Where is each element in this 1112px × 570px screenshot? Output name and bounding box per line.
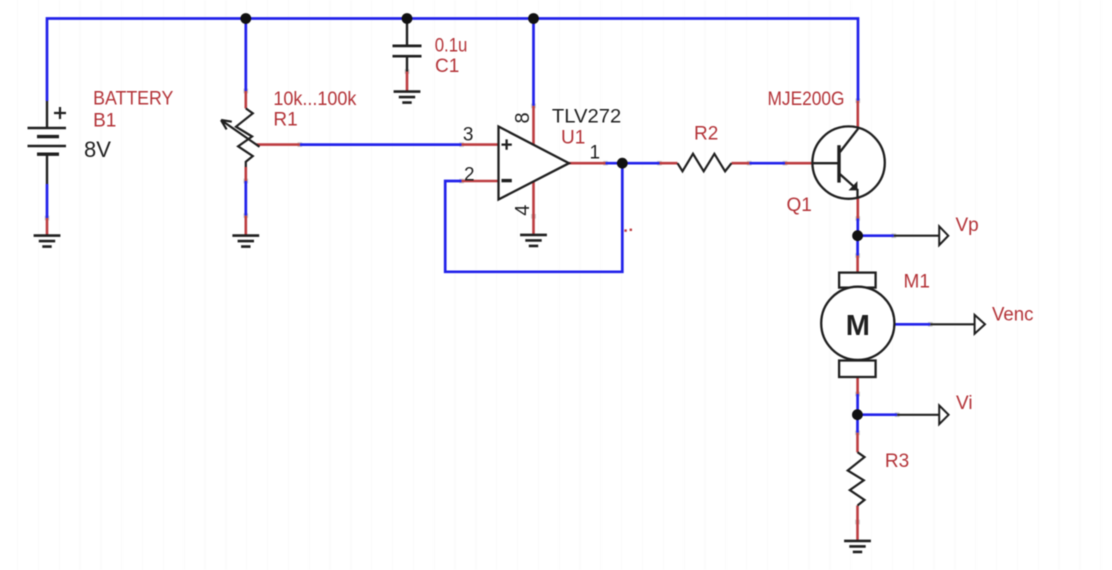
- svg-text:10k...100k: 10k...100k: [273, 89, 356, 110]
- svg-text:B1: B1: [93, 111, 116, 132]
- svg-text:Venc: Venc: [992, 304, 1034, 325]
- svg-text:R1: R1: [273, 109, 297, 130]
- svg-text:3: 3: [463, 125, 474, 146]
- svg-text:8: 8: [512, 112, 534, 123]
- svg-text:MJE200G: MJE200G: [768, 89, 845, 110]
- svg-text:0.1u: 0.1u: [435, 36, 468, 57]
- svg-text:M: M: [846, 310, 870, 342]
- svg-text:C1: C1: [435, 56, 459, 77]
- svg-text:Vi: Vi: [956, 393, 973, 414]
- svg-text:8V: 8V: [84, 137, 111, 162]
- svg-text:2: 2: [464, 164, 475, 185]
- svg-text:TLV272: TLV272: [552, 107, 621, 128]
- svg-text:BATTERY: BATTERY: [93, 89, 174, 110]
- svg-text:1: 1: [590, 143, 601, 164]
- svg-text:M1: M1: [904, 271, 930, 292]
- svg-text:Vp: Vp: [956, 215, 979, 236]
- svg-text:R2: R2: [694, 123, 718, 144]
- svg-text:Q1: Q1: [787, 195, 812, 216]
- svg-text:U1: U1: [561, 128, 585, 149]
- svg-text:4: 4: [512, 205, 534, 216]
- svg-text:R3: R3: [885, 451, 909, 472]
